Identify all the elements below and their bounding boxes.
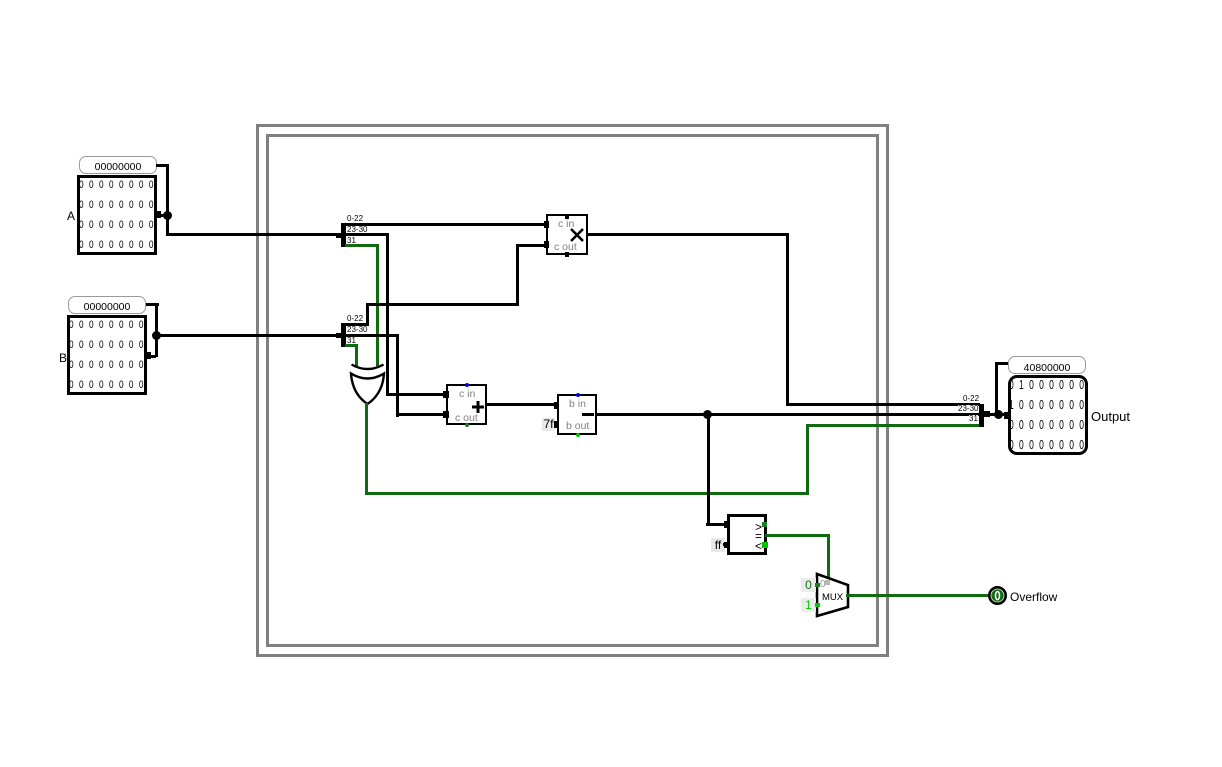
mux in0 pin dot xyxy=(815,583,820,587)
label 0-22 (A) xyxy=(347,215,363,222)
wire B bit 31 vert green xyxy=(355,344,358,366)
mux in1 pin dot xyxy=(815,603,820,607)
wire comparator eq vert green xyxy=(827,534,830,578)
pin A xyxy=(77,175,157,255)
wire A bits 0-22 to multiplier xyxy=(345,223,549,226)
subcircuit outer border xyxy=(256,124,889,657)
splitter B trunk stub xyxy=(336,333,342,338)
splitter A spine xyxy=(341,223,346,247)
pin B xyxy=(67,315,147,395)
label A xyxy=(67,209,75,223)
wire multiplier output vert xyxy=(786,233,789,406)
wire multiplier output xyxy=(586,233,789,236)
label B xyxy=(59,351,67,365)
wire probe out vert xyxy=(995,362,998,414)
adder U2 box xyxy=(446,384,487,425)
node out junction xyxy=(994,410,1003,419)
wire B vertical xyxy=(155,303,158,357)
probe Output value 40800000 xyxy=(1008,356,1086,374)
wire A bit 31 horiz green xyxy=(345,244,379,247)
label 23-30 (out) xyxy=(958,405,978,412)
constant ff xyxy=(711,538,725,552)
comparator in2 nub xyxy=(724,542,729,548)
mux M1 xyxy=(814,571,852,621)
node A junction xyxy=(163,211,172,220)
adder c in pin (blue) xyxy=(465,383,469,387)
wire xor output green vert xyxy=(365,403,368,495)
label Overflow xyxy=(1010,590,1057,604)
probe B value 00000000 xyxy=(68,296,146,314)
wire A bits 23-30 to adder xyxy=(386,393,449,396)
wire probeA tap xyxy=(156,164,169,167)
sub in2 nub xyxy=(554,421,559,428)
wire probeB tap xyxy=(146,303,159,306)
wire A bit 31 vert green xyxy=(376,244,379,366)
subcircuit inner border xyxy=(266,134,879,647)
wire B bits 0-22 long horiz xyxy=(366,303,517,306)
wire ff stub xyxy=(723,543,728,546)
mux input 1 label xyxy=(801,598,816,612)
wire B bits 0-22 to multiplier xyxy=(516,244,549,247)
LED overflow pin xyxy=(985,583,1010,608)
adder plus symbol xyxy=(471,400,485,414)
subtractor minus symbol xyxy=(582,413,594,416)
wire xor output green horiz xyxy=(365,492,809,495)
pin A out tick xyxy=(157,211,161,218)
comparator gt pin (green) xyxy=(762,522,767,527)
label 23-30 (A) xyxy=(347,226,367,233)
multiplier X symbol xyxy=(569,227,585,243)
wire sign green to splitter xyxy=(806,424,979,427)
constant 7f xyxy=(542,418,555,431)
adder c out pin (green) xyxy=(465,423,469,427)
sub in1 nub xyxy=(554,402,559,409)
subtractor U3 box xyxy=(557,394,597,435)
label 0-22 (out) xyxy=(963,395,979,402)
adder in1 nub xyxy=(443,391,449,398)
wire adder output xyxy=(485,403,559,406)
mux input 0 label xyxy=(801,578,816,592)
splitter OUT spine xyxy=(979,404,984,427)
wire B bits 23-30 horiz xyxy=(345,334,399,337)
mult in2 nub xyxy=(544,241,549,248)
wire to comparator horiz xyxy=(706,523,729,526)
label 31 (out) xyxy=(969,415,978,422)
mux default marker xyxy=(820,579,826,590)
wire subtractor output xyxy=(595,413,980,416)
wire splitter out trunk xyxy=(988,413,1008,416)
wire B bits 0-22 horiz xyxy=(345,323,368,326)
wire sign green vert up xyxy=(806,424,809,495)
splitter OUT trunk stub xyxy=(984,411,990,417)
subtractor b out pin (green) xyxy=(576,433,580,437)
multiplier U1 box xyxy=(546,214,588,255)
label 0-22 (B) xyxy=(347,315,363,322)
splitter B spine xyxy=(341,323,346,347)
wire B bits 23-30 to adder xyxy=(396,413,449,416)
wire B bits 0-22 vert up xyxy=(366,303,369,326)
node B junction xyxy=(152,331,161,340)
wire B bit 31 horiz green xyxy=(345,344,358,347)
xor gate sign bits xyxy=(348,358,388,408)
wire probe out horiz xyxy=(995,362,1008,365)
wire 7f stub xyxy=(554,423,559,426)
comparator U4 box xyxy=(727,514,767,555)
wire A bits 23-30 vert xyxy=(386,233,389,396)
wire A vertical xyxy=(166,164,169,236)
label 31 (A) xyxy=(347,237,356,244)
wire B trunk xyxy=(155,334,342,337)
probe A value 00000000 xyxy=(79,156,157,174)
subtractor b in pin (blue) xyxy=(576,393,580,397)
wire B bits 0-22 vert to mult xyxy=(516,244,519,306)
multiplier c in tick xyxy=(565,214,569,219)
label Output xyxy=(1091,409,1130,424)
wire A bits 23-30 horiz xyxy=(345,233,389,236)
wire mux output green xyxy=(846,594,988,597)
wire multiplier output to splitter xyxy=(786,403,980,406)
multiplier c out tick xyxy=(565,252,569,257)
label 23-30 (B) xyxy=(347,326,367,333)
pin Output xyxy=(1008,375,1088,455)
wire A pin stub xyxy=(157,214,167,217)
comparator lt pin (bright green) xyxy=(762,542,768,548)
mult in1 nub xyxy=(544,221,549,228)
adder in2 nub xyxy=(443,411,449,418)
node result junction xyxy=(703,410,712,419)
wire to comparator vert xyxy=(707,413,710,525)
output pin nub xyxy=(1004,412,1010,419)
label 31 (B) xyxy=(347,337,356,344)
wire B bits 23-30 vert xyxy=(396,334,399,417)
comparator in1 nub xyxy=(724,521,729,528)
pin B out tick xyxy=(147,352,151,359)
splitter A trunk stub xyxy=(336,233,342,238)
wire A trunk xyxy=(166,233,342,236)
wire comparator eq out green xyxy=(765,534,830,537)
wire B pin stub xyxy=(147,355,156,358)
